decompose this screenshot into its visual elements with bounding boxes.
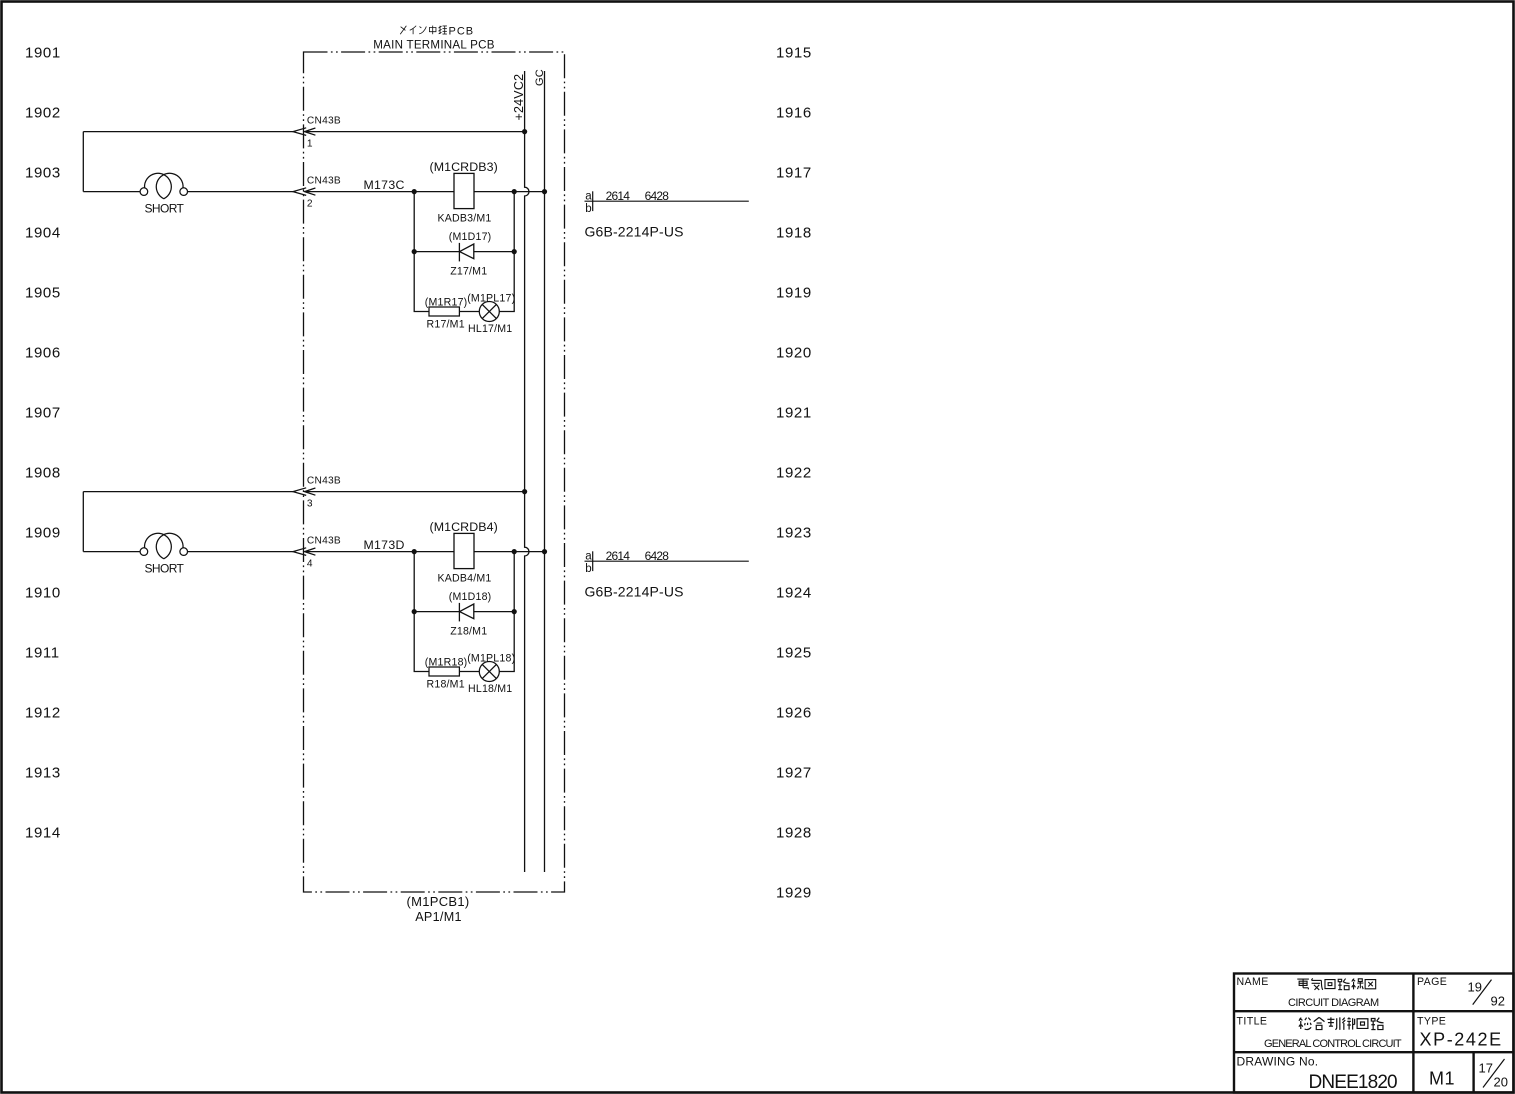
svg-text:(M1R17): (M1R17) — [425, 297, 468, 309]
svg-text:b: b — [585, 563, 591, 575]
svg-text:MAIN TERMINAL PCB: MAIN TERMINAL PCB — [373, 38, 495, 51]
svg-text:1927: 1927 — [776, 765, 812, 782]
svg-text:PCB: PCB — [449, 26, 475, 38]
wire jumper left vertical — [82, 492, 84, 552]
wire diode row — [414, 251, 514, 253]
svg-text:(M1CRDB3): (M1CRDB3) — [430, 160, 498, 174]
connector CN43B pin 1 chevron symbol — [293, 128, 316, 136]
fraction slash 17/20 — [1483, 1059, 1505, 1088]
svg-text:1905: 1905 — [25, 285, 61, 302]
svg-text:1928: 1928 — [776, 825, 812, 842]
svg-text:6428: 6428 — [645, 549, 670, 563]
branch rail left — [414, 552, 429, 672]
svg-text:4: 4 — [307, 558, 313, 569]
wire jumper left vertical — [82, 132, 84, 192]
wire jumper bottom to SHORT left terminal — [83, 551, 140, 553]
wire resistor to lamp — [459, 671, 479, 673]
PCB boundary box (MAIN TERMINAL PCB, dash-dot-dot) — [304, 52, 565, 892]
svg-text:1922: 1922 — [776, 465, 812, 482]
junction on +24VC2 — [522, 129, 527, 134]
svg-text:KADB3/M1: KADB3/M1 — [438, 213, 492, 225]
svg-text:1925: 1925 — [776, 645, 812, 662]
svg-text:M173C: M173C — [364, 178, 405, 192]
header kanji label メイン中継PCB — [400, 26, 447, 35]
terminal tick mark — [592, 551, 594, 571]
diode cathode bar — [458, 603, 460, 622]
svg-text:(M1PL18): (M1PL18) — [467, 652, 515, 664]
svg-text:HL17/M1: HL17/M1 — [468, 323, 512, 335]
svg-text:(M1PL17): (M1PL17) — [467, 292, 515, 304]
junction left rail / relay row — [412, 549, 417, 554]
lamp HL18 (M1PL18) — [479, 662, 499, 682]
svg-text:2: 2 — [307, 198, 313, 209]
svg-text:1926: 1926 — [776, 705, 812, 722]
svg-text:(M1D18): (M1D18) — [449, 591, 492, 603]
junction left rail / relay row — [412, 189, 417, 194]
svg-text:+24VC2: +24VC2 — [512, 74, 526, 121]
terminal tick mark — [592, 191, 594, 211]
svg-text:TITLE: TITLE — [1237, 1015, 1268, 1027]
junction left rail / diode row — [412, 609, 417, 614]
svg-text:GENERAL CONTROL CIRCUIT: GENERAL CONTROL CIRCUIT — [1264, 1038, 1402, 1050]
svg-text:CIRCUIT DIAGRAM: CIRCUIT DIAGRAM — [1288, 997, 1379, 1009]
svg-text:1924: 1924 — [776, 585, 812, 602]
svg-text:Z17/M1: Z17/M1 — [450, 266, 487, 278]
wire jumper bottom to SHORT left terminal — [83, 191, 140, 193]
svg-text:1906: 1906 — [25, 345, 61, 362]
resistor R17 (M1R17) — [429, 307, 459, 316]
wire pin 4 relay row to GC — [307, 551, 545, 553]
svg-text:1: 1 — [307, 138, 313, 149]
relay coil KADB4 — [454, 533, 474, 568]
right line-number column 1915-1929 — [776, 45, 812, 902]
svg-text:1903: 1903 — [25, 165, 61, 182]
svg-text:1912: 1912 — [25, 705, 61, 722]
svg-text:1913: 1913 — [25, 765, 61, 782]
svg-text:AP1/M1: AP1/M1 — [415, 910, 462, 924]
net GC vertical rail — [544, 71, 546, 872]
left line-number column 1901-1914 — [25, 45, 61, 842]
svg-text:XP-242E: XP-242E — [1420, 1029, 1503, 1049]
svg-text:6428: 6428 — [645, 189, 670, 203]
junction left rail / diode row — [412, 249, 417, 254]
title block frame — [1234, 974, 1514, 1093]
relay coil KADB3 — [454, 173, 474, 208]
svg-text:(M1PCB1): (M1PCB1) — [406, 894, 469, 909]
svg-text:17: 17 — [1479, 1060, 1493, 1075]
svg-text:1921: 1921 — [776, 405, 812, 422]
svg-text:R18/M1: R18/M1 — [427, 679, 465, 691]
svg-text:CN43B: CN43B — [307, 115, 341, 126]
svg-text:92: 92 — [1491, 993, 1505, 1008]
svg-text:SHORT: SHORT — [145, 562, 185, 576]
lamp HL17 (M1PL17) — [479, 302, 499, 322]
wire pin 1 to +24VC2 — [307, 131, 525, 133]
junction right rail / diode row — [512, 249, 517, 254]
diode cathode bar — [458, 243, 460, 262]
svg-text:(M1R18): (M1R18) — [425, 657, 468, 669]
relay output terminal line a/b — [585, 200, 749, 202]
SHORT jumper symbol — [140, 173, 187, 198]
wire diode row — [414, 611, 514, 613]
svg-text:GC: GC — [534, 69, 546, 86]
svg-text:Z18/M1: Z18/M1 — [450, 626, 487, 638]
wire CN43B pin 3 (left jumper top) — [83, 491, 293, 493]
svg-text:R17/M1: R17/M1 — [427, 319, 465, 331]
svg-text:CN43B: CN43B — [307, 475, 341, 486]
svg-text:TYPE: TYPE — [1417, 1015, 1446, 1027]
svg-text:1910: 1910 — [25, 585, 61, 602]
svg-text:1923: 1923 — [776, 525, 812, 542]
junction right rail / relay row — [512, 549, 517, 554]
svg-text:19: 19 — [1468, 980, 1482, 995]
svg-text:1902: 1902 — [25, 105, 61, 122]
wire pin 3 to +24VC2 — [307, 491, 525, 493]
svg-text:G6B-2214P-US: G6B-2214P-US — [585, 224, 684, 240]
svg-text:1915: 1915 — [776, 45, 812, 62]
svg-text:a: a — [585, 551, 592, 563]
relay output terminal line a/b — [585, 560, 749, 562]
svg-text:(M1CRDB4): (M1CRDB4) — [430, 520, 498, 534]
svg-text:1929: 1929 — [776, 885, 812, 902]
branch rail left — [414, 192, 429, 312]
svg-text:HL18/M1: HL18/M1 — [468, 683, 512, 695]
connector CN43B pin 3 chevron symbol — [293, 488, 316, 496]
resistor R18 (M1R18) — [429, 667, 459, 676]
svg-text:KADB4/M1: KADB4/M1 — [438, 573, 492, 585]
net +24VC2 vertical rail with crossover hops — [525, 71, 529, 872]
svg-text:DNEE1820: DNEE1820 — [1309, 1072, 1398, 1093]
svg-text:1908: 1908 — [25, 465, 61, 482]
svg-text:1914: 1914 — [25, 825, 61, 842]
svg-text:2614: 2614 — [606, 189, 631, 203]
wire CN43B pin 1 (left jumper top) — [83, 131, 293, 133]
junction right rail / relay row — [512, 189, 517, 194]
svg-text:PAGE: PAGE — [1417, 976, 1447, 988]
svg-text:CN43B: CN43B — [307, 535, 341, 546]
svg-text:M173D: M173D — [364, 538, 405, 552]
svg-text:1916: 1916 — [776, 105, 812, 122]
svg-text:DRAWING No.: DRAWING No. — [1237, 1054, 1319, 1068]
svg-text:1920: 1920 — [776, 345, 812, 362]
branch rail right — [499, 552, 514, 672]
svg-text:(M1D17): (M1D17) — [449, 231, 492, 243]
svg-text:NAME: NAME — [1237, 976, 1269, 988]
svg-text:1918: 1918 — [776, 225, 812, 242]
svg-text:G6B-2214P-US: G6B-2214P-US — [585, 584, 684, 600]
svg-text:1911: 1911 — [25, 645, 60, 662]
svg-text:a: a — [585, 191, 592, 203]
title kanji 電気回路線図 — [1297, 978, 1375, 990]
svg-text:SHORT: SHORT — [145, 202, 185, 216]
junction on GC — [542, 189, 547, 194]
wire pin 2 relay row to GC — [307, 191, 545, 193]
junction right rail / diode row — [512, 609, 517, 614]
svg-text:1909: 1909 — [25, 525, 61, 542]
wire resistor to lamp — [459, 311, 479, 313]
junction on GC — [542, 549, 547, 554]
svg-text:1917: 1917 — [776, 165, 812, 182]
SHORT jumper symbol — [140, 533, 187, 558]
svg-text:1901: 1901 — [25, 45, 61, 62]
svg-text:1919: 1919 — [776, 285, 812, 302]
connector CN43B pin 2 chevron symbol — [293, 188, 316, 196]
svg-text:M1: M1 — [1429, 1068, 1455, 1088]
junction on +24VC2 — [522, 489, 527, 494]
svg-text:20: 20 — [1494, 1075, 1508, 1090]
svg-text:b: b — [585, 203, 591, 215]
wire SHORT right terminal to connector — [187, 191, 293, 193]
connector CN43B pin 4 chevron symbol — [293, 548, 316, 556]
svg-text:2614: 2614 — [606, 549, 631, 563]
svg-text:3: 3 — [307, 498, 313, 509]
title kanji 総合制御回路 — [1299, 1017, 1384, 1029]
branch rail right — [499, 192, 514, 312]
wire SHORT right terminal to connector — [187, 551, 293, 553]
svg-text:CN43B: CN43B — [307, 175, 341, 186]
fraction slash 19/92 — [1473, 980, 1492, 1005]
svg-text:1904: 1904 — [25, 225, 61, 242]
svg-text:1907: 1907 — [25, 405, 61, 422]
